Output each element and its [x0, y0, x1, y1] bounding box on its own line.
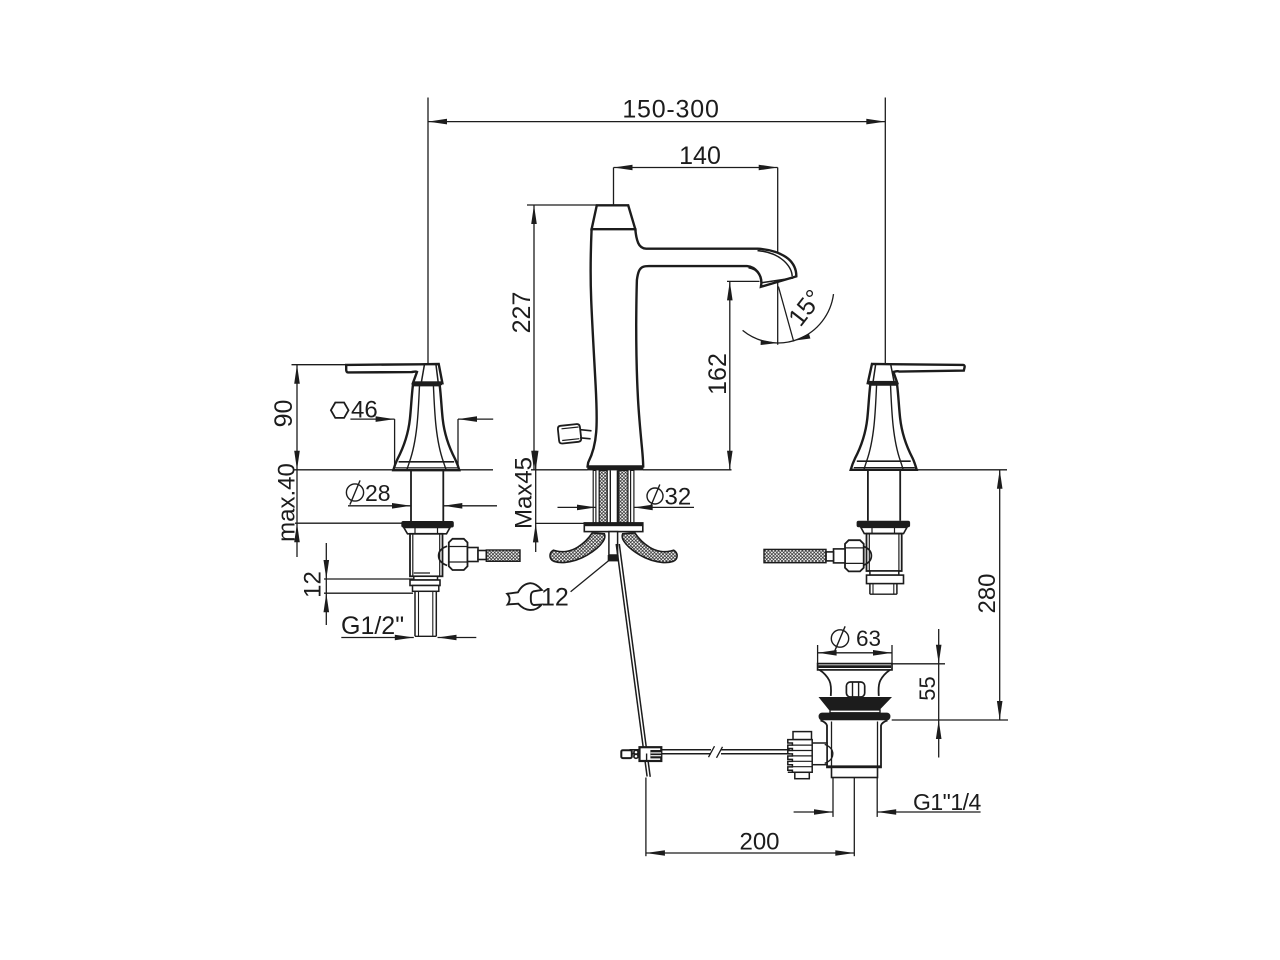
- svg-text:32: 32: [665, 484, 692, 511]
- svg-text:227: 227: [508, 292, 536, 334]
- svg-text:G1"1/4: G1"1/4: [913, 789, 982, 815]
- svg-text:46: 46: [351, 397, 378, 424]
- svg-text:63: 63: [856, 626, 881, 651]
- svg-text:162: 162: [704, 353, 732, 395]
- svg-text:90: 90: [270, 400, 298, 428]
- svg-text:G1/2": G1/2": [341, 612, 404, 640]
- svg-text:Max45: Max45: [511, 457, 538, 529]
- svg-text:12: 12: [300, 571, 327, 598]
- svg-text:280: 280: [974, 573, 1001, 613]
- svg-text:200: 200: [739, 829, 779, 856]
- svg-text:150-300: 150-300: [622, 96, 719, 124]
- svg-text:55: 55: [915, 676, 940, 700]
- svg-text:140: 140: [679, 142, 721, 170]
- svg-text:28: 28: [365, 480, 391, 506]
- svg-text:max.40: max.40: [274, 463, 301, 542]
- svg-text:12: 12: [541, 584, 569, 612]
